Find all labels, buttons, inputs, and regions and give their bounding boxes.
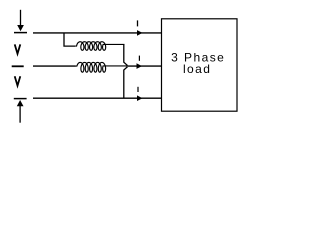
voltmeter reference arrow (down) top-left: [17, 10, 24, 32]
label V (lower voltmeter): [15, 76, 21, 85]
dash above line 3 arrow: [137, 87, 139, 92]
inductor L2 (wattmeter W2 current coil): [75, 62, 127, 72]
tick bar under down arrow (line 1 level): [14, 32, 27, 34]
current arrow on middle output: [137, 63, 143, 69]
dash above middle arrow: [138, 56, 140, 61]
wire: junction up-leg from line 3: [124, 67, 128, 99]
label V (upper voltmeter): [15, 44, 21, 53]
wire: coil L1 output drop to junction: [124, 44, 128, 65]
3 phase load box: [162, 19, 238, 111]
current arrow on line 1: [137, 30, 143, 36]
middle tick bar (line 2 level): [12, 65, 24, 67]
current arrow on line 3: [137, 95, 143, 101]
tick bar above up arrow (line 3 level): [14, 98, 27, 100]
wire: phase line 3: [33, 97, 161, 99]
inductor L1 (wattmeter W1 current coil): [75, 42, 124, 51]
wire: phase line 1: [33, 32, 161, 34]
dash above line 1 arrow: [137, 20, 139, 26]
voltmeter reference arrow (up) bottom-left: [17, 100, 24, 123]
node: common junction output wire to load: [128, 65, 161, 67]
svg-text:load: load: [183, 62, 212, 76]
wire: phase line 2 (left of coil): [33, 65, 76, 67]
wire: branch drop from line 1 to coil L1: [64, 33, 75, 46]
